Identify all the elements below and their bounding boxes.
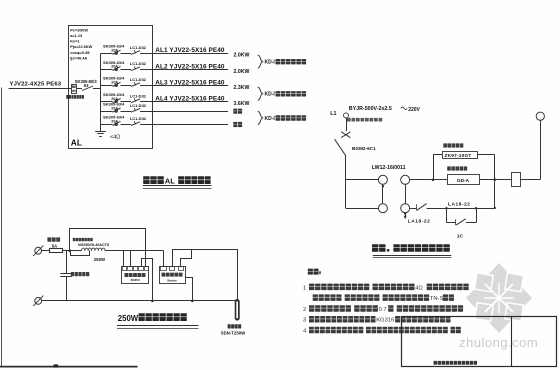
pushbutton parallel branch <box>445 207 477 225</box>
wire coil to riser <box>520 179 540 181</box>
main breaker switch <box>77 88 82 90</box>
svg-text:a=1.13: a=1.13 <box>70 33 83 38</box>
note line 3 <box>303 316 451 324</box>
title block frame <box>402 317 557 367</box>
photocell controller label <box>447 166 451 170</box>
junction on bottom rail 2 <box>191 300 194 303</box>
svg-text:KD-I: KD-I <box>265 116 276 122</box>
wire from L1 terminal <box>346 118 348 131</box>
contactor coil 1C <box>512 173 521 187</box>
branch contactor KM2 LC1-D32 <box>130 61 147 70</box>
wire stub row1 <box>346 179 379 181</box>
svg-text:1C: 1C <box>457 234 464 240</box>
svg-text:KD-I: KD-I <box>265 60 276 66</box>
svg-text:zhulong.com: zhulong.com <box>459 335 538 350</box>
wire junction to photocell <box>433 179 447 181</box>
wire up to clock controller <box>433 155 435 180</box>
svg-text:LA18-22: LA18-22 <box>448 202 471 208</box>
svg-text:ZD250: ZD250 <box>130 278 139 282</box>
branch output wire 6 <box>140 124 228 126</box>
branch contactor KM6 LC1-D32 <box>130 116 147 125</box>
svg-text:L1: L1 <box>330 111 336 117</box>
wire fuse to junction <box>62 250 82 252</box>
diagram title: photocell clock controller wiring <box>372 244 451 257</box>
spare circuit label <box>233 109 237 114</box>
lamp description label <box>347 118 351 122</box>
trigger mid terminal to lamp wire <box>173 250 238 300</box>
distribution bus <box>100 54 102 125</box>
fuse label <box>47 237 51 241</box>
svg-text:Starter: Starter <box>167 278 178 282</box>
svg-text:LC1-D32: LC1-D32 <box>130 103 147 108</box>
note line 1 <box>303 284 469 292</box>
terminal block neutral <box>35 298 42 305</box>
note line 1 cont <box>313 294 454 302</box>
clock controller label <box>443 143 447 147</box>
sodium lamp tube <box>235 299 240 321</box>
note line 2 <box>303 305 463 313</box>
selector contact 2-1 <box>378 204 387 213</box>
svg-text:AL: AL <box>71 138 82 148</box>
compensation capacitor C <box>60 251 71 301</box>
indicator lamp cross <box>341 132 350 138</box>
svg-text:2: 2 <box>303 307 306 313</box>
svg-text:KG316T: KG316T <box>376 318 398 324</box>
notes heading <box>308 269 313 275</box>
svg-text:AL1 YJV22-5X16 PE40: AL1 YJV22-5X16 PE40 <box>155 47 225 54</box>
svg-text:GD-A: GD-A <box>457 178 470 184</box>
kWh meter Wh <box>72 85 77 94</box>
svg-text:1: 1 <box>303 285 306 291</box>
branch output wire 2 <box>140 69 228 71</box>
svg-text:AL4 YJV22-5X16 PE40: AL4 YJV22-5X16 PE40 <box>155 96 225 103</box>
drawing frame bottom border <box>0 366 138 368</box>
bottom rail wire <box>42 300 236 302</box>
ground symbol <box>95 125 106 137</box>
branch contactor KM3 LC1-D32 <box>130 77 147 86</box>
load calculation text block <box>70 28 92 61</box>
svg-text:NG250/GL40ACTS: NG250/GL40ACTS <box>78 243 110 247</box>
terminal L1 <box>344 113 349 118</box>
electronic trigger box <box>160 267 186 284</box>
incoming supply wire <box>9 88 71 90</box>
svg-text:Pe=20KW: Pe=20KW <box>70 28 88 33</box>
trigger label <box>162 273 166 277</box>
title block caption <box>434 361 438 365</box>
igniter label <box>125 273 129 277</box>
diagram title: 250W sodium lamp wiring <box>117 313 199 328</box>
svg-text:2.0KW: 2.0KW <box>234 53 250 59</box>
switch BGM2-6C1 <box>335 139 346 156</box>
branch contactor KM4 LC1-D32 <box>130 93 147 102</box>
wire switch to selector <box>345 156 347 208</box>
ballast label <box>73 238 76 241</box>
svg-text:BYJR-500V-2x2.5: BYJR-500V-2x2.5 <box>349 106 392 112</box>
branch breaker QF5 SK305-63/4 20A <box>101 101 132 112</box>
wire riser to output terminal <box>540 120 542 179</box>
igniter box <box>122 267 149 284</box>
riser wire right <box>494 155 496 209</box>
svg-text:<4Ω: <4Ω <box>110 135 120 141</box>
stub below contact 2-2 to button <box>405 213 407 217</box>
svg-text:250W: 250W <box>118 314 139 323</box>
branch output wire 3 <box>140 85 228 87</box>
svg-text:3.6KW: 3.6KW <box>234 101 250 107</box>
fuse FU <box>50 249 63 253</box>
drawing frame left border <box>1 88 3 367</box>
svg-text:LC1-D32: LC1-D32 <box>130 116 147 121</box>
trigger box input drop <box>163 251 165 266</box>
selector contact 1-1 <box>378 175 387 184</box>
branch breaker QF4 SK305-63/4 20A <box>101 92 132 103</box>
svg-text:0.7: 0.7 <box>379 307 387 313</box>
svg-text:TN-S: TN-S <box>430 296 444 302</box>
svg-text:LC1-D32: LC1-D32 <box>130 77 147 82</box>
lamp label <box>228 324 231 328</box>
svg-text:ZK97-10GT: ZK97-10GT <box>445 153 472 158</box>
top bypass wire <box>70 229 146 267</box>
branch breaker QF1 SK305-63/4 20A <box>101 44 132 55</box>
wire block to riser <box>476 208 495 210</box>
branch output wire 5 <box>140 111 228 113</box>
compensation capacitor label <box>71 272 74 276</box>
branch output wire 4 <box>140 101 228 103</box>
svg-text:cosφ=0.85: cosφ=0.85 <box>70 50 90 55</box>
branch breaker QF2 SK305-63/4 20A <box>101 60 132 71</box>
auxiliary contact after selector <box>410 204 447 211</box>
photocell controller box GD-A <box>448 175 480 185</box>
svg-text:Ijs=40.4A: Ijs=40.4A <box>70 55 87 60</box>
supply label ~220V <box>401 107 407 110</box>
branch breaker QF3 SK305-63/4 20A <box>101 76 132 87</box>
svg-text:2.3KW: 2.3KW <box>234 85 250 91</box>
selector contact 2-2 <box>401 204 410 213</box>
selector pole link right <box>405 184 407 203</box>
branch contactor KM1 LC1-D32 <box>130 45 147 54</box>
watermark zhulong logo <box>466 263 532 333</box>
svg-text:Pjs=22.6KW: Pjs=22.6KW <box>70 44 92 49</box>
svg-text:KD-I: KD-I <box>265 92 276 98</box>
branch contactor KM5 LC1-D32 <box>130 103 147 112</box>
svg-text:220V: 220V <box>408 107 420 113</box>
wire photocell to coil <box>479 179 512 181</box>
svg-text:5A: 5A <box>52 244 57 249</box>
wire row1 to junction <box>410 179 433 181</box>
svg-text:250W: 250W <box>94 257 106 262</box>
terminal block phase <box>35 247 42 254</box>
svg-text:LA18-22: LA18-22 <box>408 219 431 225</box>
svg-text:63: 63 <box>84 83 89 88</box>
svg-text:LC1-D32: LC1-D32 <box>130 93 147 98</box>
svg-text:LC1-D32: LC1-D32 <box>130 45 147 50</box>
group brace <box>258 111 263 124</box>
diagram title: AL panel system diagram <box>143 176 212 188</box>
trigger right terminal jog <box>181 250 192 267</box>
junction node <box>432 179 435 182</box>
igniter input drops <box>123 251 125 266</box>
title block divider <box>511 317 513 367</box>
branch output wire 1 <box>140 53 228 55</box>
igniter bypass to bottom rail <box>142 259 153 301</box>
svg-text:4: 4 <box>303 329 307 335</box>
svg-text:Kx=1: Kx=1 <box>70 39 80 44</box>
svg-text:AL2 YJV22-5X16 PE40: AL2 YJV22-5X16 PE40 <box>155 63 225 70</box>
svg-text:YJV22-4X25 PE63: YJV22-4X25 PE63 <box>10 81 62 87</box>
svg-text:LW12-16/0011: LW12-16/0011 <box>372 165 406 171</box>
meter label <box>66 95 68 99</box>
svg-text:SDN-T250W: SDN-T250W <box>221 330 246 335</box>
svg-text:3: 3 <box>303 318 306 324</box>
group brace <box>258 87 263 100</box>
selector pole link left <box>382 184 384 203</box>
group brace <box>258 55 263 68</box>
svg-text:AL3 YJV22-5X16 PE40: AL3 YJV22-5X16 PE40 <box>155 79 225 86</box>
junction on bottom rail 1 <box>151 300 154 303</box>
ballast inductor coil <box>82 248 106 251</box>
wire stub row2 <box>346 208 379 210</box>
svg-text:BGM2-6C1: BGM2-6C1 <box>352 146 376 151</box>
svg-text:AL: AL <box>165 176 175 185</box>
wire clock to riser <box>477 154 495 156</box>
wire terminal to fuse <box>42 250 49 252</box>
panel AL enclosure box <box>69 26 153 149</box>
svg-text:4Ω: 4Ω <box>415 285 423 291</box>
ballast tap loop <box>71 251 90 256</box>
wire ballast to igniter <box>105 250 164 252</box>
spare circuit label <box>233 122 237 127</box>
branch breaker QF6 SK305-63/4 20A <box>101 115 132 126</box>
note line 4 <box>303 327 461 335</box>
svg-text:2.0KW: 2.0KW <box>234 69 250 75</box>
clock controller box ZK97-10GT <box>443 152 478 159</box>
selector contact 1-2 <box>401 175 410 184</box>
svg-text:LC1-D32: LC1-D32 <box>130 61 147 66</box>
trigger right side to bottom rail <box>186 278 193 301</box>
output terminal <box>536 112 544 120</box>
